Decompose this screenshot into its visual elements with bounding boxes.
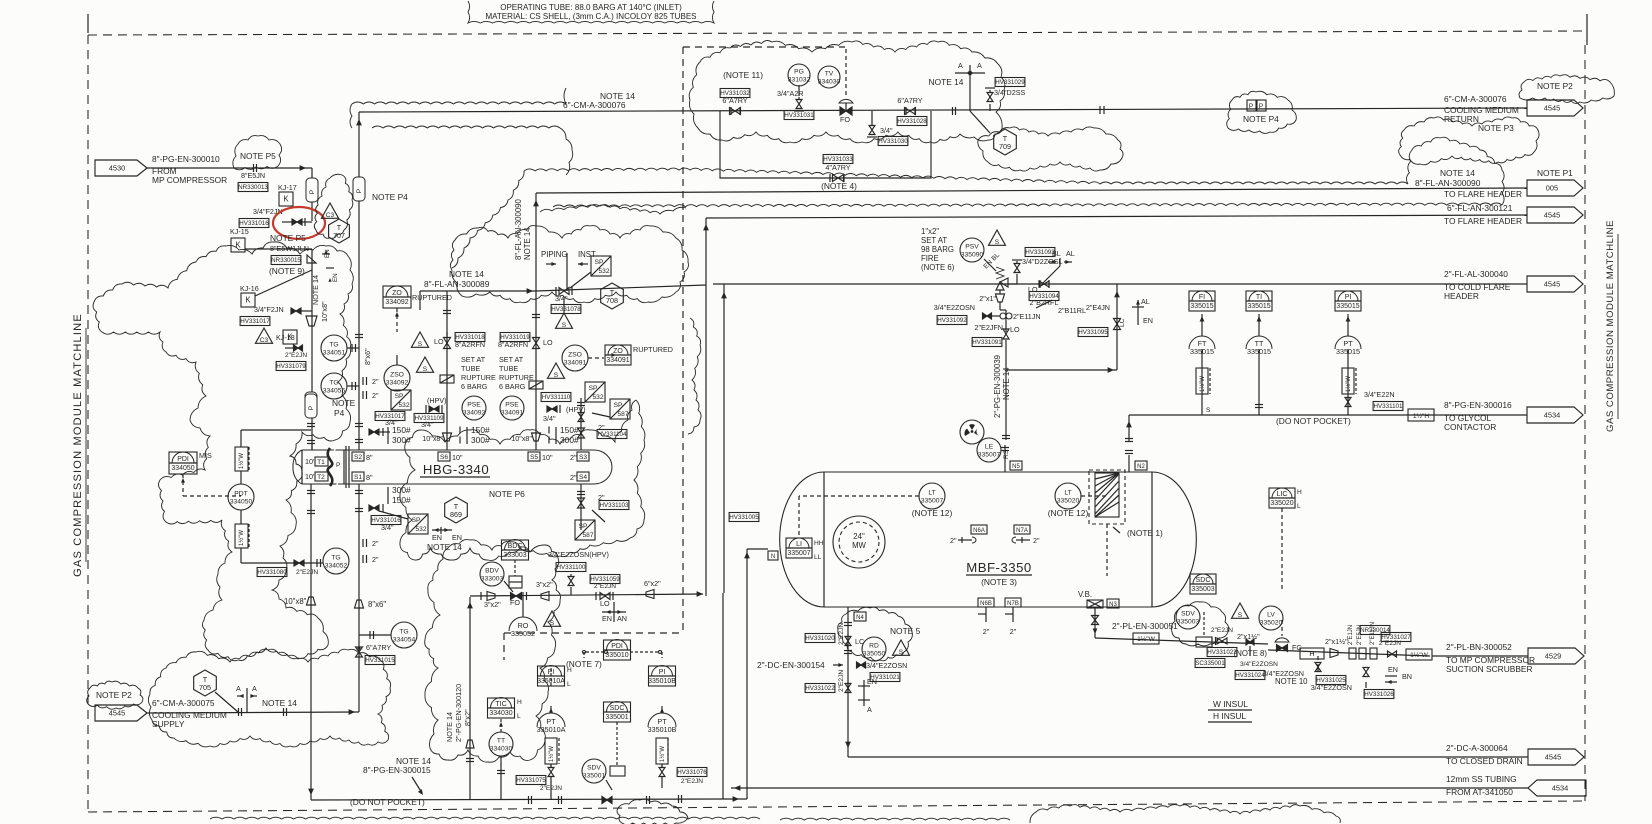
svg-text:8"E5JN: 8"E5JN <box>241 171 265 180</box>
svg-text:S: S <box>1238 612 1243 619</box>
svg-text:LO: LO <box>434 337 444 346</box>
instrument PG 331032 <box>788 64 810 86</box>
svg-text:BL: BL <box>1052 249 1061 258</box>
svg-text:HV331080: HV331080 <box>257 569 287 576</box>
instrument FT 335015 <box>1189 336 1215 349</box>
svg-text:K: K <box>287 333 293 342</box>
svg-text:RUPTURED: RUPTURED <box>412 293 452 302</box>
wire 2 inch relief to 6-FL riser <box>536 285 706 291</box>
flag 4534 tubing <box>1528 780 1586 796</box>
svg-text:12mm SS TUBING: 12mm SS TUBING <box>1446 774 1517 784</box>
triangle S right <box>548 363 565 378</box>
svg-text:ZO: ZO <box>613 348 623 355</box>
valve HV331032 6A7RY <box>730 108 736 115</box>
svg-text:1½"H: 1½"H <box>1413 412 1430 420</box>
svg-text:2"E2JN: 2"E2JN <box>594 583 616 590</box>
svg-text:LIC: LIC <box>1277 491 1288 498</box>
svg-text:NOTE 14: NOTE 14 <box>449 269 484 279</box>
svg-text:334092: 334092 <box>385 299 408 306</box>
node 150/300 right <box>555 427 557 444</box>
svg-text:OPERATING TUBE: 88.0 BARG AT 1: OPERATING TUBE: 88.0 BARG AT 140°C (INLE… <box>500 3 682 12</box>
wire 2-DC-A-300064 <box>848 756 1528 758</box>
wire 8-FL-AN-300090 header <box>536 188 1527 193</box>
wire PL to flag section <box>1268 650 1430 656</box>
wire gas outlet column x311 down <box>310 484 312 800</box>
svg-text:EN: EN <box>332 273 339 282</box>
cloud around T709 <box>978 127 1123 171</box>
node EN EN below T869 <box>440 527 442 534</box>
svg-text:334091: 334091 <box>501 410 524 417</box>
svg-text:K: K <box>235 241 241 250</box>
triangle S BDV <box>544 611 561 626</box>
svg-text:335050: 335050 <box>863 651 886 658</box>
valve 2E2JN HV331076 <box>659 768 665 773</box>
svg-text:PSE: PSE <box>467 402 481 409</box>
cloud around inlet valve KJ-17 <box>314 174 353 238</box>
wire S6 riser <box>446 291 448 450</box>
svg-text:SDV: SDV <box>587 765 601 772</box>
internal nozzle N6A <box>971 525 987 534</box>
svg-text:10": 10" <box>542 453 553 462</box>
instrument LT 335007 <box>919 483 945 509</box>
reducer 2x1.5 <box>1330 649 1338 658</box>
svg-text:10": 10" <box>305 457 316 466</box>
instrument SDC 335003 square <box>1190 574 1216 594</box>
svg-text:A: A <box>236 684 241 693</box>
svg-text:NOTE P4: NOTE P4 <box>1243 114 1279 124</box>
svg-text:P: P <box>1249 103 1254 110</box>
wire drain from RD area down <box>1317 664 1319 672</box>
svg-text:300#: 300# <box>392 435 411 445</box>
svg-text:10"x8": 10"x8" <box>320 301 329 322</box>
svg-text:8"A2RFN: 8"A2RFN <box>455 340 485 349</box>
svg-text:(DO NOT POCKET): (DO NOT POCKET) <box>1276 416 1351 426</box>
svg-text:(HPV): (HPV) <box>427 396 447 405</box>
svg-text:A: A <box>977 61 982 70</box>
valve 3/4 E22N HV331101 <box>1345 398 1351 403</box>
valve HV331033 4A7RY bypass <box>833 175 839 182</box>
svg-text:HV331103: HV331103 <box>599 502 629 509</box>
node EN A vents <box>863 680 865 706</box>
svg-text:P: P <box>308 405 315 410</box>
triangle S below HV331078 <box>556 313 573 328</box>
svg-text:6 BARG: 6 BARG <box>461 382 488 391</box>
svg-text:4545: 4545 <box>1544 211 1561 220</box>
node 150/300 flanges left <box>466 427 468 444</box>
cloud flare band bottom edge <box>553 203 1502 207</box>
cloud around T705 supply <box>148 649 390 747</box>
svg-text:3/4": 3/4" <box>543 414 556 423</box>
valve 6A7RY HV331015 <box>356 647 363 652</box>
svg-text:LL: LL <box>814 554 822 561</box>
wire PSV outlet to cold flare <box>1008 283 1017 285</box>
svg-text:335007: 335007 <box>978 452 1001 459</box>
valve SDV body <box>1196 637 1212 647</box>
top note cloud <box>468 1 714 23</box>
svg-text:P: P <box>356 188 363 193</box>
svg-text:H: H <box>1309 649 1314 658</box>
instrument ZO 334091 square <box>605 345 631 365</box>
svg-text:2"-PL-BN-300052: 2"-PL-BN-300052 <box>1446 642 1512 652</box>
svg-text:532: 532 <box>592 394 603 401</box>
wire dashed ZSO to ZO <box>588 357 604 359</box>
valve LC 2E2JN HV331020 <box>845 637 851 642</box>
svg-text:P4: P4 <box>334 408 345 418</box>
valve 3/4 E2ZOSN HV331024 <box>1246 639 1250 645</box>
svg-text:N7A: N7A <box>1016 528 1028 534</box>
svg-text:2": 2" <box>372 555 379 564</box>
svg-text:1½"W: 1½"W <box>659 746 666 762</box>
svg-text:1½"W: 1½"W <box>1199 376 1206 392</box>
svg-text:2"B2RFL: 2"B2RFL <box>1030 298 1059 307</box>
valve 3/4 A2R HV331031 with PG <box>796 100 802 105</box>
label HV331005 <box>729 513 759 522</box>
svg-text:SP: SP <box>614 402 623 409</box>
nozzle label S1 8 <box>352 472 364 481</box>
cloud around BDV RO <box>425 540 561 763</box>
svg-text:SET AT: SET AT <box>499 355 524 364</box>
svg-text:N2: N2 <box>1137 464 1145 470</box>
wire S3 riser with valves <box>580 398 582 450</box>
svg-text:HV331030: HV331030 <box>878 138 908 145</box>
check valve on drop <box>307 255 316 263</box>
svg-text:334030: 334030 <box>818 79 841 86</box>
svg-text:H INSUL: H INSUL <box>1213 711 1246 721</box>
instrument LE 335007 radiation <box>960 420 984 444</box>
instrument SDV 335001 <box>582 759 606 783</box>
valve 3/4 HV331078 <box>559 288 564 295</box>
svg-text:2": 2" <box>372 377 379 386</box>
pipe class 1.5W box right <box>1406 649 1432 660</box>
svg-text:2"E1JN: 2"E1JN <box>1348 625 1354 645</box>
svg-text:P: P <box>1259 103 1264 110</box>
svg-text:S5: S5 <box>530 454 538 461</box>
svg-text:KJ-15: KJ-15 <box>230 227 249 236</box>
svg-text:RS: RS <box>1003 449 1010 459</box>
svg-text:4545: 4545 <box>109 709 126 718</box>
svg-text:RUPTURED: RUPTURED <box>633 345 673 354</box>
svg-text:HV331092: HV331092 <box>937 317 967 324</box>
wire instrument tap <box>1347 314 1349 336</box>
svg-text:TO FLARE HEADER: TO FLARE HEADER <box>1444 189 1522 199</box>
svg-text:EN: EN <box>1143 316 1153 325</box>
svg-text:HV331031: HV331031 <box>784 112 814 119</box>
svg-text:3"x2": 3"x2" <box>536 580 553 589</box>
valve 3/4 E2ZOSN HV331025 <box>1315 663 1321 668</box>
svg-text:T2: T2 <box>317 474 325 481</box>
separator MBF-3350 shell <box>780 472 1197 607</box>
nozzle label S6 10 <box>438 452 450 461</box>
valve 2E2JN HV331079 <box>294 345 299 351</box>
svg-text:S6: S6 <box>440 454 448 461</box>
svg-text:2"-PG-EN-300039: 2"-PG-EN-300039 <box>993 355 1002 418</box>
reducer 2x1 below PSV <box>996 294 1005 302</box>
node arrow into bottom header <box>308 789 314 795</box>
cloud NOTE P5 top <box>233 136 282 170</box>
valve 2E4JN LC HV331095 <box>1114 319 1121 325</box>
wire riser to 6-FL header <box>705 218 707 596</box>
pipe class 1.5W box PL <box>1133 633 1159 644</box>
svg-text:8"A2RFN: 8"A2RFN <box>498 340 528 349</box>
svg-text:TO FLARE HEADER: TO FLARE HEADER <box>1444 216 1522 226</box>
svg-text:3/4"E2ZOSN: 3/4"E2ZOSN <box>934 303 975 312</box>
svg-text:3/4": 3/4" <box>381 523 394 532</box>
cloud around SDV 335003 <box>1171 602 1228 646</box>
svg-text:(NOTE 1): (NOTE 1) <box>1127 528 1163 538</box>
svg-text:(NOTE 4): (NOTE 4) <box>821 181 857 191</box>
reducer 6x2 <box>646 590 654 599</box>
valve HV331016 below <box>369 505 374 511</box>
svg-text:8"x6": 8"x6" <box>363 348 372 365</box>
hexagon T 708 <box>601 283 624 309</box>
page border dashed bottom <box>88 801 1585 812</box>
instrument TG 334054 <box>391 622 417 648</box>
cloud NOTE P3 <box>1399 117 1539 165</box>
svg-text:PDT: PDT <box>234 491 247 498</box>
label KJ-18 <box>255 328 272 343</box>
svg-text:L: L <box>517 713 521 720</box>
wire 300089 stub left <box>419 291 421 310</box>
svg-text:S: S <box>562 322 567 329</box>
svg-text:334091: 334091 <box>564 360 587 367</box>
svg-text:8"-FL-AN-300090: 8"-FL-AN-300090 <box>1415 178 1481 188</box>
svg-text:FO: FO <box>510 598 520 607</box>
svg-text:HBG-3340: HBG-3340 <box>423 462 489 477</box>
svg-text:334050: 334050 <box>230 499 253 506</box>
svg-text:KJ-16: KJ-16 <box>240 284 259 293</box>
flag 4545 flare 300121 <box>1527 207 1583 223</box>
cloud bottom edge left <box>210 817 760 819</box>
svg-text:V.B.: V.B. <box>1078 590 1092 599</box>
svg-text:EN: EN <box>602 614 612 623</box>
instrument TV 334030 <box>818 66 840 88</box>
svg-text:335007: 335007 <box>787 550 810 557</box>
svg-text:3/4"E2ZOSN: 3/4"E2ZOSN <box>866 661 907 670</box>
svg-text:2": 2" <box>950 536 957 545</box>
svg-text:ZSO: ZSO <box>390 372 404 379</box>
hexagon T 869 <box>445 497 468 523</box>
node 2 inch ticks below <box>362 539 364 547</box>
svg-text:(NOTE 12): (NOTE 12) <box>1048 508 1089 518</box>
valve 2E2JN HV331022 <box>845 684 851 689</box>
node 150/300 flanges S2 <box>387 427 389 444</box>
wire 6-FL-AN-300121 header <box>706 215 1527 218</box>
svg-text:NOTE P6: NOTE P6 <box>489 489 525 499</box>
svg-text:10": 10" <box>452 453 463 462</box>
svg-text:PI: PI <box>659 669 666 676</box>
wire E4JN riser to cold flare <box>1116 284 1118 370</box>
cloud flare band right bulge <box>1407 137 1505 205</box>
svg-text:AL: AL <box>1141 297 1150 306</box>
hexagon T 709 <box>994 129 1017 155</box>
valve LO 8A2RFN right riser <box>500 333 530 342</box>
svg-text:150#: 150# <box>392 425 411 435</box>
instrument TG 334051 <box>321 335 347 361</box>
svg-text:NOTE P3: NOTE P3 <box>1478 123 1514 133</box>
svg-text:S4: S4 <box>579 474 587 481</box>
svg-text:H: H <box>567 667 572 674</box>
wire 2-PG-EN-300039 riser <box>1005 340 1007 440</box>
svg-text:T1: T1 <box>317 459 325 466</box>
wire dashed LT335007 to LI <box>799 495 919 497</box>
instrument RO 335052 dome <box>509 617 537 631</box>
instrument ZO 334092 square <box>383 286 411 308</box>
svg-text:S: S <box>554 372 559 379</box>
triangle S PL <box>1232 603 1249 618</box>
valve 2E2JN HV331075 <box>516 776 546 785</box>
cloud bottom edge SDV drop <box>617 799 688 824</box>
reducer 10x8 right <box>532 433 541 441</box>
wire PDT lower tap <box>240 510 242 524</box>
svg-text:3/4"F2JN: 3/4"F2JN <box>254 305 284 314</box>
svg-text:2"E4JN: 2"E4JN <box>1086 303 1110 312</box>
svg-text:4545: 4545 <box>1544 104 1561 113</box>
svg-text:SP: SP <box>395 393 404 400</box>
svg-text:SET AT: SET AT <box>921 236 947 245</box>
svg-text:NOTE 14: NOTE 14 <box>262 698 297 708</box>
flag 005 flare header <box>1527 180 1583 196</box>
svg-text:FIRE: FIRE <box>921 254 939 263</box>
svg-text:335010B: 335010B <box>648 678 676 685</box>
wire 6-CM-A-300075 <box>147 712 359 713</box>
annotation red ellipse <box>273 207 325 239</box>
svg-text:HV331028: HV331028 <box>897 118 927 125</box>
slashed box SP 532 below <box>408 514 428 534</box>
svg-text:2"E2JFN: 2"E2JFN <box>974 323 1003 332</box>
instrument TI 335015 <box>1246 291 1272 311</box>
cloud big left region <box>93 242 353 661</box>
svg-text:2": 2" <box>570 473 577 482</box>
svg-text:335020: 335020 <box>1057 498 1080 505</box>
node 300/150 flanges below <box>387 487 389 504</box>
svg-text:334030: 334030 <box>490 746 513 753</box>
wire 2-PL-BN-300052 <box>1432 655 1528 657</box>
svg-text:GAS COMPRESSION MODULE MATCHLI: GAS COMPRESSION MODULE MATCHLINE <box>1605 220 1616 432</box>
svg-text:(DO NOT POCKET): (DO NOT POCKET) <box>350 797 425 807</box>
svg-text:6"A7RY: 6"A7RY <box>722 96 747 105</box>
svg-text:HV331017: HV331017 <box>240 318 270 325</box>
cloud flare band left closure <box>452 171 524 268</box>
cloud NOTE P2 right top <box>1519 75 1614 104</box>
svg-text:3"x2": 3"x2" <box>484 600 501 609</box>
svg-text:TT: TT <box>497 738 505 745</box>
svg-text:N5: N5 <box>1012 464 1020 470</box>
bottom nozzle N7B <box>1005 598 1021 607</box>
svg-text:1½"W: 1½"W <box>238 530 245 546</box>
cloud bottom small mid <box>780 818 1010 820</box>
svg-text:(NOTE 9): (NOTE 9) <box>269 266 305 276</box>
svg-text:2"E2JN: 2"E2JN <box>681 778 703 785</box>
valve BDV ball FO <box>511 593 517 600</box>
cloud NOTE P4 small <box>1227 91 1297 133</box>
node A-A section marker <box>969 65 971 111</box>
svg-text:2"-FL-AL-300040: 2"-FL-AL-300040 <box>1444 269 1508 279</box>
svg-text:TIC: TIC <box>495 701 506 708</box>
wire instrument tap <box>1258 314 1260 336</box>
pipe break <box>952 107 954 115</box>
wire ZSO link <box>396 355 398 365</box>
valve 6A7RY HV331028 <box>905 108 911 115</box>
svg-text:2": 2" <box>1033 536 1040 545</box>
svg-text:2": 2" <box>372 539 379 548</box>
svg-text:4534: 4534 <box>1544 411 1561 420</box>
svg-text:1"x2": 1"x2" <box>921 227 939 236</box>
valve SDV 335001 body <box>610 766 625 776</box>
wire BDV riser to cold flare <box>723 284 725 593</box>
pipe break TI tap <box>1255 404 1263 406</box>
svg-text:8"-PG-EN-300016: 8"-PG-EN-300016 <box>1444 400 1512 410</box>
svg-text:A: A <box>958 61 963 70</box>
instrument PSE 334091 <box>500 396 524 420</box>
wire dashed package boundary top <box>683 46 845 48</box>
svg-text:3/4"E22N: 3/4"E22N <box>1364 390 1395 399</box>
triangle S drain <box>893 640 910 655</box>
svg-text:NOTE P4: NOTE P4 <box>372 192 408 202</box>
wire S2 return riser x359 flanges <box>355 423 363 425</box>
svg-text:N3: N3 <box>1109 602 1117 608</box>
instrument PI 335010A square <box>538 666 565 686</box>
svg-text:HV331024: HV331024 <box>1235 672 1265 679</box>
svg-text:335015: 335015 <box>1190 303 1213 310</box>
node EN BN vents <box>1385 675 1397 677</box>
wire bypass loop NOTE 4 <box>720 111 931 178</box>
svg-text:334050: 334050 <box>171 465 194 472</box>
svg-text:2"-PG-EN-300120: 2"-PG-EN-300120 <box>454 684 463 742</box>
svg-text:A: A <box>252 684 257 693</box>
triangle S <box>989 230 1006 245</box>
slashed box SP 532 right <box>585 382 605 402</box>
svg-text:2"x1½": 2"x1½" <box>1237 632 1260 641</box>
svg-text:W INSUL: W INSUL <box>1213 699 1248 709</box>
valve 3/4 E2ZOSN HV331026 <box>1363 668 1369 673</box>
svg-text:HV331076: HV331076 <box>677 769 707 776</box>
triangle C3 <box>321 203 338 218</box>
svg-text:FI: FI <box>1199 294 1205 301</box>
flange ticks on CM header <box>1099 106 1101 114</box>
instrument PSV 335090 <box>960 238 984 262</box>
flag 4529 <box>1528 648 1584 664</box>
cloud top CM return system <box>689 41 1005 143</box>
svg-text:SUCTION SCRUBBER: SUCTION SCRUBBER <box>1446 664 1533 674</box>
svg-text:8"x6": 8"x6" <box>368 600 386 609</box>
node EN vents <box>322 253 330 255</box>
svg-text:8"-PG-EN-300015: 8"-PG-EN-300015 <box>363 765 431 775</box>
wire bottom header continues <box>646 796 648 804</box>
instrument ZSO 334091 <box>562 345 588 371</box>
wire gas inlet column x311 <box>311 443 313 450</box>
svg-text:(NOTE 3): (NOTE 3) <box>981 577 1017 587</box>
valve 3/4 D2ZOSL HV331093 <box>1014 264 1020 269</box>
svg-text:2"E2JN: 2"E2JN <box>838 623 845 645</box>
wire feed riser x747 <box>746 549 748 799</box>
svg-text:005: 005 <box>1546 184 1558 193</box>
svg-text:NOTE 14: NOTE 14 <box>929 77 964 87</box>
svg-text:10"x8": 10"x8" <box>422 434 443 443</box>
svg-text:331032: 331032 <box>788 77 811 84</box>
manway 24 MW <box>833 516 885 568</box>
wire KJ-15 to drop <box>245 248 312 250</box>
svg-text:SDV: SDV <box>1181 611 1195 618</box>
instrument LT 335020 <box>1055 483 1081 509</box>
flag 4545 closed drain <box>1528 749 1584 765</box>
rupture disc right <box>529 381 543 389</box>
svg-text:532: 532 <box>415 526 426 533</box>
svg-text:335090: 335090 <box>961 252 984 259</box>
svg-text:PG: PG <box>794 69 804 76</box>
svg-text:334092: 334092 <box>386 380 409 387</box>
node BL AL marker <box>1059 258 1061 266</box>
svg-text:SP: SP <box>589 385 598 392</box>
